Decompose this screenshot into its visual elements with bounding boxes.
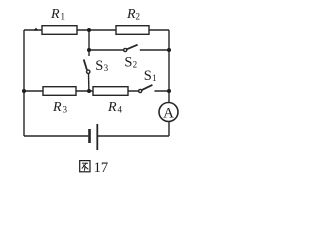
svg-text:3: 3 [63, 105, 68, 115]
svg-text:R: R [52, 100, 62, 115]
svg-text:4: 4 [118, 105, 123, 115]
svg-text:S: S [124, 55, 132, 71]
svg-text:R: R [50, 7, 60, 22]
svg-text:3: 3 [104, 63, 109, 73]
svg-text:2: 2 [133, 59, 138, 69]
svg-text:R: R [126, 7, 136, 22]
svg-text:1: 1 [61, 12, 66, 22]
svg-text:1: 1 [152, 73, 157, 83]
svg-text:S: S [95, 58, 103, 74]
svg-text:A: A [163, 105, 174, 121]
svg-text:S: S [144, 68, 152, 84]
svg-text:2: 2 [136, 12, 141, 22]
svg-text:17: 17 [94, 160, 109, 176]
svg-text:R: R [107, 100, 117, 115]
